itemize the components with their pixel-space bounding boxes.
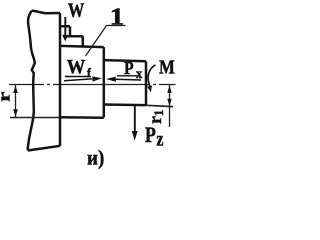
force Pz arrowhead <box>132 131 138 141</box>
r arrow down <box>13 109 18 117</box>
leader line to hub <box>86 26 107 57</box>
force W arrow shaft <box>64 17 66 35</box>
force W arrowhead <box>62 35 68 41</box>
r1 arrow up <box>167 85 171 93</box>
moment M arc arrow <box>148 65 155 89</box>
r1 arrow down <box>167 99 171 107</box>
fixture plate right edge <box>59 13 62 146</box>
svg-text:и): и) <box>87 147 104 170</box>
hub top edge <box>60 46 104 47</box>
svg-text:r: r <box>0 92 14 102</box>
force Px arrow <box>116 78 142 81</box>
underline of Wf <box>65 76 91 78</box>
cylinder right edge <box>145 61 148 105</box>
dimension r1 line <box>169 85 171 127</box>
extension line right of cylinder bottom <box>146 105 173 106</box>
cylinder bottom edge <box>104 103 146 106</box>
leader underline for 1 <box>106 25 126 27</box>
fixture plate top edge <box>32 11 60 14</box>
force Pz arrow shaft <box>134 105 136 132</box>
hub bottom edge <box>60 116 104 119</box>
extension line bottom of r <box>10 117 60 119</box>
clamp step vertical 1 <box>69 26 72 36</box>
clamp step vertical 2 <box>82 36 85 46</box>
clamp step top face <box>60 25 70 28</box>
cylinder top edge <box>104 60 146 61</box>
fixture plate left wavy edge <box>28 11 35 151</box>
fixture plate bottom edge <box>28 146 60 151</box>
clamp mid face <box>66 35 83 38</box>
friction force Wf arrow <box>64 79 92 81</box>
underline of Px <box>117 75 140 77</box>
hub right edge <box>103 47 106 117</box>
dimension r line <box>15 85 17 117</box>
centerline (axis, dash-dot) <box>9 84 176 86</box>
svg-text:M: M <box>159 56 175 78</box>
svg-text:Pz: Pz <box>145 123 164 150</box>
svg-text:W: W <box>68 0 85 22</box>
r arrow up <box>13 85 18 93</box>
